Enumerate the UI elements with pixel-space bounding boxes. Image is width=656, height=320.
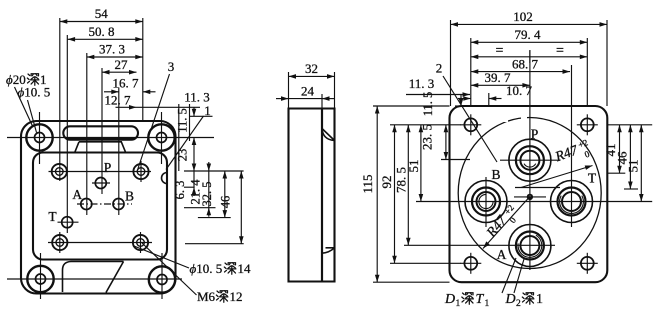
ext line right view x=607 xyxy=(606,20,608,106)
right view bottom-right corner hole xyxy=(581,257,594,270)
dimension 92 xyxy=(394,125,396,263)
ext line right view x=587.3 xyxy=(586,38,588,106)
dimension 23.5 xyxy=(445,125,447,160)
svg-text:23: 23 xyxy=(176,149,190,162)
right view vertical centerline through P and A xyxy=(529,50,531,270)
right view port P horizontal centerline xyxy=(500,159,560,161)
left view lower-left counterbore vertical centerline xyxy=(59,232,61,253)
svg-text:12. 7: 12. 7 xyxy=(105,92,132,107)
left view top-left mounting hole phi20/phi10.5 xyxy=(26,124,52,150)
svg-text:P: P xyxy=(531,127,539,142)
left view right ref line y=217.6 xyxy=(198,217,231,219)
left view vertical ref x=189.5 xyxy=(189,104,191,141)
leader R47 upper stub line xyxy=(515,187,560,189)
svg-text:10. 7: 10. 7 xyxy=(506,83,533,98)
ext line right view x=488.8 xyxy=(488,93,490,106)
ref line corner hole row left ext xyxy=(390,124,461,126)
svg-text:T: T xyxy=(588,171,597,186)
svg-text:B: B xyxy=(125,189,134,204)
svg-text:79. 4: 79. 4 xyxy=(515,27,542,42)
right view pilot ellipse xyxy=(458,118,601,269)
svg-text:16. 7: 16. 7 xyxy=(113,76,140,91)
leader D1 xyxy=(502,258,516,293)
dimension 39.7 xyxy=(471,84,530,86)
dimension 37.3 xyxy=(87,56,143,58)
extension line x=86.8 (dim 37.3 left) xyxy=(86,53,88,215)
svg-text:A: A xyxy=(497,247,507,262)
ref line P row left ext xyxy=(441,159,470,161)
middle view ext line right 32 xyxy=(334,72,336,109)
svg-text:32: 32 xyxy=(305,61,318,76)
dimension 32.5 xyxy=(224,171,226,218)
svg-text:54: 54 xyxy=(95,6,109,21)
left view port P horizontal centerline xyxy=(92,182,110,184)
left view port P xyxy=(95,178,106,189)
right view port B xyxy=(465,181,507,223)
right view port A xyxy=(509,225,551,267)
dimension 41 right xyxy=(619,125,621,173)
ext line right view x=470.8 xyxy=(470,38,472,106)
leader phi20 xyxy=(15,87,33,126)
middle view body rectangle xyxy=(289,109,323,282)
extension line x=67.3 (dim 50.8 left) xyxy=(66,35,68,233)
svg-text:ϕ10. 5: ϕ10. 5 xyxy=(18,85,51,100)
svg-text:1: 1 xyxy=(456,299,461,309)
svg-text:T: T xyxy=(476,292,485,307)
left view upper counterbore row centerline xyxy=(49,171,152,173)
left view bottom-right hole vertical centerline xyxy=(161,253,163,299)
right view port T xyxy=(551,181,593,223)
dimension 16.7 (outside arrows) xyxy=(104,91,119,93)
svg-text:B: B xyxy=(491,167,500,182)
svg-text:11. 5: 11. 5 xyxy=(421,92,435,117)
right view port T vertical centerline xyxy=(571,65,573,227)
dimension 54 xyxy=(60,21,143,23)
leader D2 xyxy=(514,259,524,293)
svg-text:D: D xyxy=(505,292,516,307)
left view notch on inner right edge xyxy=(162,173,167,184)
left view bottom-right mounting hole phi20/phi10.5 xyxy=(149,266,175,292)
dimension 115 xyxy=(376,106,378,282)
svg-text:11. 5: 11. 5 xyxy=(176,108,190,133)
ellipse dash gap 2 xyxy=(521,111,527,120)
left view bottom-left hole vertical centerline xyxy=(40,253,42,299)
left view right ref line y=207.7 xyxy=(184,207,216,209)
svg-text:51: 51 xyxy=(406,160,421,173)
svg-text:P: P xyxy=(104,160,112,175)
dimension 23 xyxy=(193,138,195,172)
svg-text:46: 46 xyxy=(219,196,233,209)
right view bottom-left corner hole xyxy=(464,257,477,270)
svg-text:115: 115 xyxy=(360,174,375,193)
dimension 6.3 xyxy=(193,171,195,187)
ref line 46 bottom xyxy=(624,188,638,190)
left view slot trapezoid recess xyxy=(75,142,126,153)
svg-text:50. 8: 50. 8 xyxy=(89,24,115,39)
svg-text:1: 1 xyxy=(485,299,490,309)
right view port B vertical centerline xyxy=(485,177,487,227)
svg-text:23. 5: 23. 5 xyxy=(420,124,435,150)
svg-text:=: = xyxy=(556,44,564,59)
right view top-left corner hole xyxy=(464,118,477,131)
dimension 50.8 xyxy=(68,38,143,40)
dimension 68.7 xyxy=(471,71,570,73)
dimension 51 right xyxy=(640,125,642,202)
left view port T xyxy=(62,217,73,228)
dimension symmetric = = xyxy=(471,56,588,58)
middle view ext line left xyxy=(288,72,290,109)
svg-text:1: 1 xyxy=(204,103,211,118)
left view top hole row centerline xyxy=(7,137,214,139)
right view plate outline xyxy=(450,106,608,282)
ref line plate bottom left ext xyxy=(373,281,450,283)
dimension 46 right xyxy=(629,125,631,189)
left view bottom-left mounting hole phi20/phi10.5 xyxy=(27,266,53,292)
svg-text:6. 3: 6. 3 xyxy=(173,181,187,200)
svg-text:68. 7: 68. 7 xyxy=(512,56,539,71)
middle view face plate rectangle xyxy=(322,109,335,282)
ref line 41 bottom xyxy=(607,172,625,174)
svg-text:51: 51 xyxy=(626,160,641,173)
dimension 21.4 (outside arrows) xyxy=(208,171,210,208)
dimension 102 xyxy=(451,23,608,25)
right view port A horizontal centerline xyxy=(505,244,555,246)
extension line x=142.8 (right common) xyxy=(142,18,144,121)
right view port P xyxy=(509,139,551,181)
svg-text:T: T xyxy=(48,209,57,224)
left view lower counterbore row centerline xyxy=(48,242,152,244)
dimension 12.7 and 11.3 shared line xyxy=(116,106,201,108)
left view inner face outline xyxy=(33,153,167,260)
svg-text:12: 12 xyxy=(230,289,243,304)
left view slot inner bottom line xyxy=(68,138,135,140)
left view right ref line y=187.2 xyxy=(184,186,195,188)
svg-text:ϕ10. 5: ϕ10. 5 xyxy=(190,261,223,276)
left view top-right hole vertical centerline xyxy=(161,112,163,164)
svg-text:27: 27 xyxy=(115,57,129,72)
ref line A row left ext xyxy=(404,244,505,246)
dimension 27 xyxy=(102,71,137,73)
dimension 46 xyxy=(240,171,242,244)
extension line x=59.8 (dim 54 left) xyxy=(59,18,61,181)
left view lower-right counterbored hole xyxy=(133,235,148,250)
ref line plate top left ext xyxy=(373,105,450,107)
right view horizontal centerline through B and T xyxy=(416,201,652,203)
dimension 24 middle (outside arrows) xyxy=(276,98,289,100)
left view upper-right counterbore vertical centerline xyxy=(140,161,142,182)
left view dimension 11.5 (down arrow) xyxy=(193,107,195,116)
svg-text:D: D xyxy=(444,292,455,307)
extension line x=102 (dim 27 left) xyxy=(101,68,103,194)
right view center dot horizontal centerline xyxy=(514,196,546,198)
extension line x=118.8 (dim 16.7 left) xyxy=(118,88,120,216)
left view A-B axis dash-dot centerline xyxy=(77,203,132,205)
svg-text:1: 1 xyxy=(536,292,543,307)
svg-text:M6: M6 xyxy=(197,289,216,304)
svg-text:102: 102 xyxy=(513,9,533,24)
left view top-left hole vertical centerline xyxy=(39,112,41,164)
svg-text:14: 14 xyxy=(238,261,252,276)
left view bottom recess pocket xyxy=(63,262,124,293)
left view port B xyxy=(113,199,124,210)
ellipse dash gap 1 xyxy=(498,112,508,122)
leader R47 lower xyxy=(483,197,530,249)
left view port T horizontal centerline xyxy=(58,221,79,223)
leader R47 upper xyxy=(521,166,593,188)
left view top slot xyxy=(63,126,138,139)
svg-text:3: 3 xyxy=(168,59,175,74)
right view dimension 11.5 (down arrow) xyxy=(460,95,462,107)
left view right ref line y=171 ext xyxy=(184,170,244,172)
left view top-right mounting hole phi20/phi10.5 xyxy=(148,124,174,150)
ref line bottom corner row left ext xyxy=(390,262,461,264)
svg-text:2: 2 xyxy=(436,61,443,76)
dimension 79.4 xyxy=(471,41,588,43)
ext line right view x=450.5 xyxy=(450,20,452,106)
left view port A xyxy=(81,199,92,210)
right view center pin hole xyxy=(527,194,533,200)
left view lower-left counterbored hole xyxy=(52,235,67,250)
svg-text:A: A xyxy=(72,187,82,202)
dimension 78.5 xyxy=(407,125,409,246)
ref line right cluster top xyxy=(607,124,652,126)
right view top-right corner hole xyxy=(581,118,594,131)
left view upper-right counterbored hole xyxy=(133,164,148,179)
leader phi10.5 deep14 xyxy=(134,246,189,268)
svg-text:32. 5: 32. 5 xyxy=(200,182,214,207)
dimension 32 middle xyxy=(289,75,335,77)
svg-text:2: 2 xyxy=(516,299,521,309)
leader phi10.5 hole xyxy=(28,100,37,133)
right view dimension 11.3 xyxy=(406,94,470,96)
svg-text:37. 3: 37. 3 xyxy=(99,42,125,57)
leader M6 deep12 xyxy=(142,243,197,295)
left view bottom hole row centerline xyxy=(7,278,182,280)
left view right ref line y=243.7 xyxy=(185,243,244,245)
dimension 51 left xyxy=(420,125,422,202)
svg-text:=: = xyxy=(496,44,504,59)
svg-text:11. 3: 11. 3 xyxy=(409,76,435,91)
left view lower-right counterbore vertical centerline xyxy=(140,232,142,253)
left view plate outline xyxy=(21,121,176,294)
svg-text:24: 24 xyxy=(301,83,315,98)
left view upper-left counterbored hole xyxy=(52,164,67,179)
middle view ext line right 24 xyxy=(321,94,323,109)
left view vertical ref x=178.8 xyxy=(178,104,180,171)
svg-text:92: 92 xyxy=(379,176,394,189)
middle view top crescent xyxy=(322,129,335,141)
dimension 10.7 (outside arrows) xyxy=(458,98,471,100)
middle view bottom crescent xyxy=(322,248,334,253)
